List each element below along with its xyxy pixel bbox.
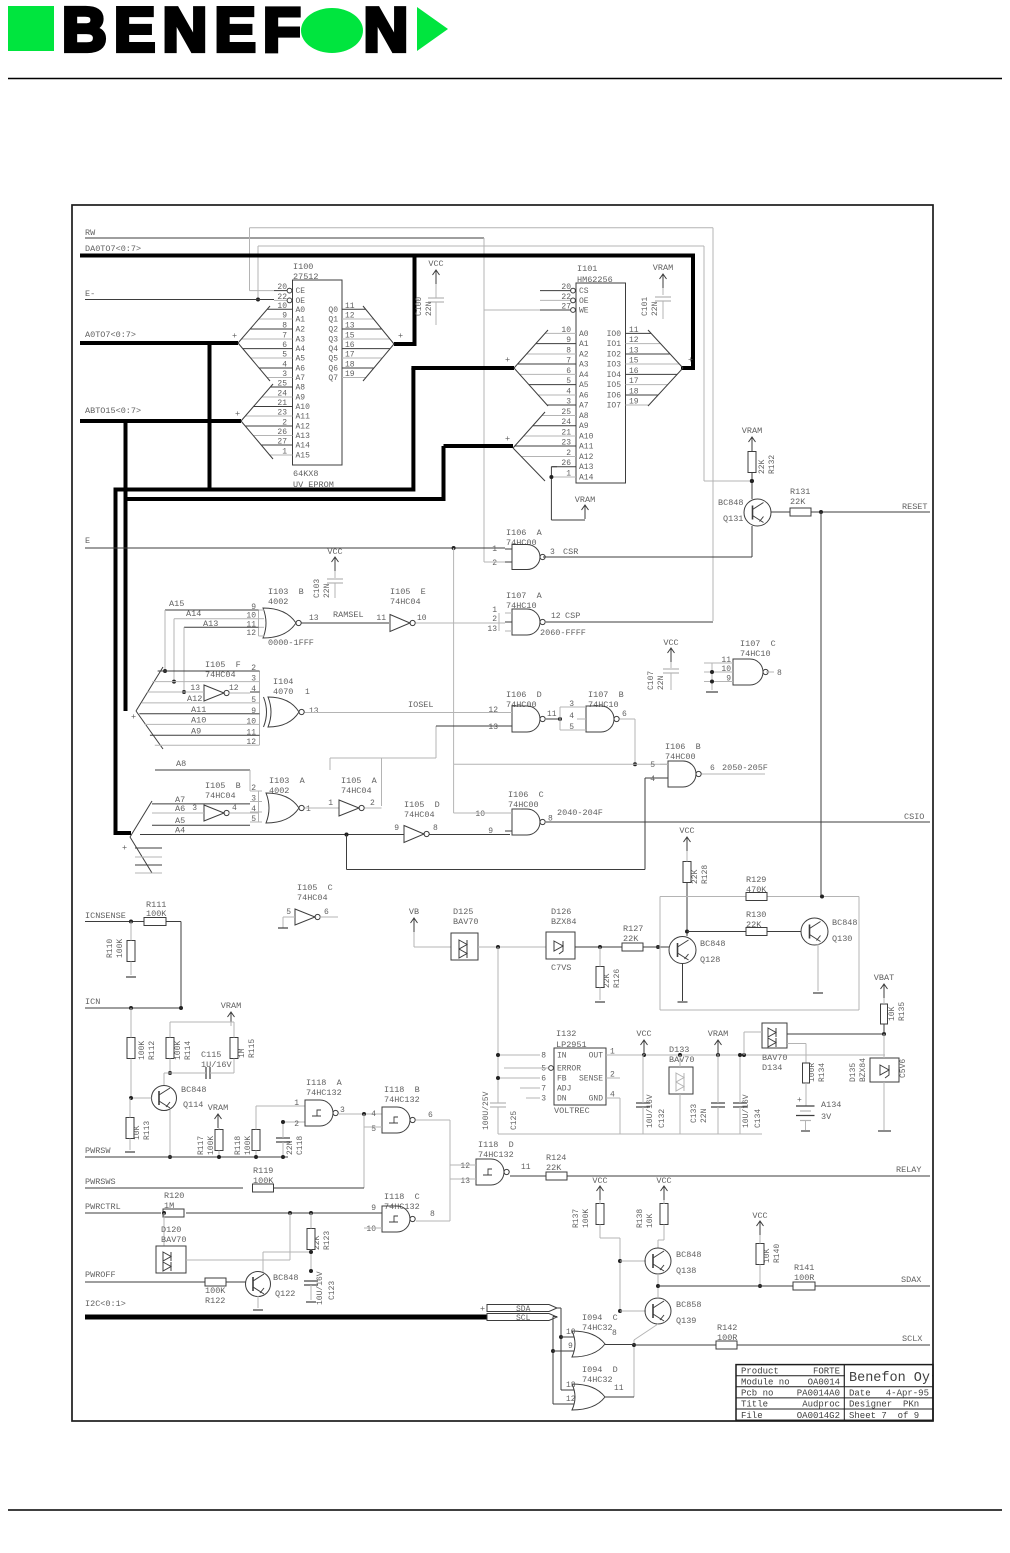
wire PWRSWS [85,1187,243,1189]
svg-text:22: 22 [277,293,287,302]
I101 pin 17 IO5 [626,384,668,386]
svg-text:A15: A15 [296,452,311,461]
svg-text:4: 4 [232,804,237,813]
svg-text:Q114: Q114 [183,1100,203,1110]
svg-text:I101: I101 [577,264,597,274]
I100 pin 16 Q4 [342,348,390,350]
svg-text:Q1: Q1 [328,316,338,325]
svg-text:10: 10 [475,810,485,819]
svg-text:74HC132: 74HC132 [306,1088,342,1098]
net SDAX [658,1285,793,1287]
svg-text:A14: A14 [579,474,594,483]
svg-text:5: 5 [650,761,655,770]
svg-text:17: 17 [629,377,639,386]
svg-text:VCC: VCC [679,826,694,836]
svg-text:R120: R120 [164,1191,184,1201]
svg-text:C7VS: C7VS [551,963,571,973]
resistor R122 100K [205,1278,226,1286]
svg-text:1: 1 [492,545,497,554]
svg-text:A5: A5 [579,381,589,390]
title block lines [736,1375,933,1377]
bus ABTO15 [80,419,241,423]
svg-text:A2: A2 [579,351,589,360]
wire A15 [165,609,259,611]
svg-text:R112: R112 [148,1041,157,1060]
svg-text:16: 16 [629,367,639,376]
transistor Q122 BC848 [246,1272,271,1297]
svg-text:BAV70: BAV70 [453,917,479,927]
svg-text:7: 7 [282,332,287,341]
svg-text:I132: I132 [556,1029,576,1039]
svg-text:I106 D: I106 D [506,690,542,700]
svg-text:BENEF: BENEF [62,0,308,65]
svg-text:13: 13 [487,625,497,634]
bus DA0TO7 vertical [691,254,695,369]
svg-text:I107 A: I107 A [506,591,543,601]
wire I103A input bracket [258,791,260,822]
wire to EPROM CE [249,228,251,291]
svg-text:R113: R113 [143,1121,152,1140]
svg-text:74HC04: 74HC04 [205,791,236,801]
svg-text:1: 1 [294,1099,299,1108]
svg-text:2: 2 [370,799,375,808]
wire funnel row A12 [142,702,250,704]
svg-text:11: 11 [376,614,386,623]
svg-text:VCC: VCC [752,1211,767,1221]
I100 pin 8 A2 [250,328,292,330]
svg-text:19: 19 [629,398,639,407]
svg-text:100K: 100K [205,1286,226,1296]
svg-text:6: 6 [428,1111,433,1120]
wire A14 [174,618,259,620]
transistor Q128 BC848 [669,937,696,964]
svg-text:22: 22 [561,293,571,302]
svg-text:+: + [505,355,510,365]
power VCC at OUT [643,1040,645,1054]
svg-text:SENSE: SENSE [579,1075,603,1084]
svg-text:A134: A134 [821,1100,841,1110]
svg-text:Sheet 7 of 9: Sheet 7 of 9 [849,1411,919,1421]
I100 pin 26 A13 [253,435,292,437]
svg-text:Product: Product [741,1366,779,1376]
svg-text:5: 5 [541,1065,546,1074]
svg-text:24: 24 [561,418,571,427]
net RESET [811,511,930,513]
I100 pin 17 Q5 [342,357,382,359]
svg-text:2: 2 [294,1120,299,1129]
svg-text:A8: A8 [296,384,306,393]
I101 pin 8 A2 [527,353,576,355]
svg-text:1: 1 [328,799,333,808]
svg-text:Q139: Q139 [676,1316,696,1326]
svg-text:Q130: Q130 [832,934,852,944]
svg-text:A12: A12 [296,423,311,432]
svg-text:12: 12 [246,629,256,638]
svg-text:SDA: SDA [516,1305,531,1314]
svg-text:BC848: BC848 [700,939,726,949]
power VRAM below SRAM [584,505,586,519]
svg-text:R119: R119 [253,1166,273,1176]
svg-text:D133: D133 [669,1045,689,1055]
svg-text:VCC: VCC [663,638,678,648]
svg-text:74HC04: 74HC04 [390,597,421,607]
svg-text:A8: A8 [176,759,186,769]
transistor Q130 BC848 [801,918,828,945]
I100 pin 27 A14 [261,444,292,446]
I100 pin 6 A4 [243,348,293,350]
wire I105F output [229,692,250,694]
svg-text:8: 8 [433,824,438,833]
wire Q114 emitter [169,1110,171,1157]
svg-text:OA0014G2: OA0014G2 [797,1411,840,1421]
net RELAY [510,1175,546,1177]
svg-text:A5: A5 [296,355,306,364]
wire I106A pin2 [484,561,505,563]
svg-text:74HC04: 74HC04 [404,810,435,820]
svg-text:4002: 4002 [268,597,288,607]
I100 A8-A15 input funnel [241,384,273,421]
wire I107B bracket [559,707,561,730]
svg-text:PWRSW: PWRSW [85,1146,111,1156]
svg-text:10: 10 [417,614,427,623]
svg-text:A9: A9 [296,394,306,403]
svg-text:RW: RW [85,228,96,238]
svg-text:3: 3 [282,370,287,379]
svg-text:Q0: Q0 [328,306,338,315]
wire to I106B pin5 [454,763,668,765]
svg-text:VCC: VCC [327,547,342,557]
transistor Q131 BC848 [744,499,771,526]
svg-text:R128: R128 [701,865,710,884]
svg-text:VCC: VCC [656,1176,671,1186]
I101 pin 25 A8 [542,415,576,417]
I100 pin 3 A7 [267,377,292,379]
wire vertical to CSP [712,228,714,621]
wire I105C in [283,916,295,918]
wire I107A input bracket [498,613,500,631]
svg-text:D135: D135 [849,1063,858,1082]
svg-text:C103: C103 [313,579,322,598]
wire VRAM rail [230,1022,232,1026]
svg-text:DA0TO7<0:7>: DA0TO7<0:7> [85,244,141,254]
I101 pin 9 A1 [536,343,576,345]
I100 pin 24 A9 [262,396,293,398]
svg-text:C101: C101 [641,297,650,316]
svg-text:A4: A4 [296,345,306,354]
I101 pin 11 IO0 [626,332,652,334]
bus left corner [114,831,132,835]
svg-text:ABTO15<0:7>: ABTO15<0:7> [85,406,141,416]
svg-text:4: 4 [251,805,256,814]
svg-text:A3: A3 [296,336,306,345]
svg-text:R117: R117 [197,1136,206,1155]
svg-text:D120: D120 [161,1225,181,1235]
svg-text:17: 17 [345,351,355,360]
Benefon logo green triangle [417,7,448,51]
svg-text:OA0014: OA0014 [808,1378,840,1388]
svg-text:27: 27 [561,303,571,312]
svg-text:IOSEL: IOSEL [408,700,434,710]
svg-text:BAV70: BAV70 [669,1055,695,1065]
svg-text:13: 13 [566,1381,576,1390]
svg-text:R137: R137 [572,1209,581,1228]
svg-text:BZX84: BZX84 [551,917,577,927]
svg-text:100K: 100K [138,1041,147,1060]
svg-text:IN: IN [557,1052,567,1061]
svg-text:2: 2 [492,559,497,568]
transistor Q114 BC848 [152,1086,177,1111]
wire I107B out [620,718,635,720]
header rule [8,78,1002,80]
bus I2C [85,1315,487,1320]
I100 pin 25 A8 [270,386,292,388]
svg-text:I094 D: I094 D [582,1365,618,1375]
svg-text:74HC132: 74HC132 [384,1095,420,1105]
svg-text:2060-FFFF: 2060-FFFF [540,628,586,638]
svg-text:IO7: IO7 [607,402,622,411]
svg-text:6: 6 [324,908,329,917]
svg-text:VRAM: VRAM [653,263,673,273]
svg-text:SDAX: SDAX [901,1275,921,1285]
svg-text:VCC: VCC [428,259,443,269]
svg-text:16: 16 [345,341,355,350]
svg-text:5: 5 [251,696,256,705]
svg-text:24: 24 [277,390,287,399]
wire I107C out [766,671,774,673]
I101 pin 2 A12 [521,456,576,458]
svg-text:PWRCTRL: PWRCTRL [85,1202,121,1212]
svg-text:10: 10 [721,665,731,674]
svg-text:SCLX: SCLX [902,1334,922,1344]
Benefon logo green square [8,6,54,51]
svg-text:7: 7 [566,357,571,366]
wire R127 to Q128 [643,946,669,948]
svg-text:VRAM: VRAM [575,495,595,505]
svg-text:R110: R110 [106,939,115,958]
svg-text:BAV70: BAV70 [161,1235,187,1245]
svg-text:11: 11 [345,302,355,311]
bus flag SDA [487,1305,557,1312]
svg-text:13: 13 [460,1177,470,1186]
wire I118B out [416,1119,450,1121]
svg-text:I106 B: I106 B [665,742,701,752]
svg-text:R122: R122 [205,1296,225,1306]
svg-text:+: + [480,1304,485,1314]
resistor R128 22K [686,837,688,851]
svg-text:CS: CS [579,287,589,296]
wire A4 branch [346,835,348,870]
svg-text:A7: A7 [579,402,589,411]
svg-text:A9: A9 [191,726,201,736]
svg-text:23: 23 [277,409,287,418]
svg-text:21: 21 [277,399,287,408]
svg-text:3: 3 [569,700,574,709]
svg-text:6: 6 [566,367,571,376]
svg-text:A6: A6 [175,804,185,814]
svg-text:A11: A11 [296,413,311,422]
svg-text:A13: A13 [296,432,311,441]
net A5 [152,824,250,826]
I101 pin 3 A7 [547,404,576,406]
svg-text:A0TO7<0:7>: A0TO7<0:7> [85,330,136,340]
wire feedback loop [660,896,746,898]
svg-text:23: 23 [561,439,571,448]
wire ICNSENSE [85,921,144,923]
wire E branch [453,548,455,764]
svg-text:100K: 100K [174,1041,183,1060]
svg-text:I105 E: I105 E [390,587,426,597]
wire funnel row 1 [152,681,250,683]
svg-text:I104: I104 [273,677,293,687]
svg-text:C132: C132 [658,1109,667,1128]
wire I106D pin13 [436,725,505,727]
svg-text:74HC32: 74HC32 [582,1323,613,1333]
svg-text:I100: I100 [293,262,313,272]
svg-text:12: 12 [460,1162,470,1171]
svg-text:CSR: CSR [563,547,578,557]
svg-text:8: 8 [430,1210,435,1219]
svg-text:Designer PKn: Designer PKn [849,1400,919,1410]
svg-text:74HC10: 74HC10 [740,649,771,659]
transistor Q139 BC858 [645,1298,671,1324]
svg-text:IO1: IO1 [607,340,622,349]
wire R138 to Q138 [663,1225,665,1241]
capacitor C103 22N [334,557,336,571]
wire PWRCTRL [85,1212,161,1214]
svg-text:C133: C133 [690,1104,699,1123]
svg-text:25: 25 [277,380,287,389]
net A6 [152,812,204,814]
wire emitter to R131 [771,511,790,513]
svg-text:9: 9 [251,707,256,716]
I101 pin 18 IO6 [626,394,659,396]
svg-text:Benefon Oy: Benefon Oy [849,1371,930,1386]
svg-text:IO3: IO3 [607,361,622,370]
svg-text:R115: R115 [248,1039,257,1058]
bus ABTO15 vertical [124,421,128,711]
bus to SRAM addr vertical [411,368,415,492]
A8-A12 funnel [136,667,163,711]
I101 pin 24 A9 [533,425,576,427]
power VCC at R137 [599,1186,601,1200]
svg-text:DN: DN [557,1095,567,1104]
svg-text:A10: A10 [191,715,206,725]
svg-text:18: 18 [345,361,355,370]
svg-text:3: 3 [541,1095,546,1104]
svg-text:1: 1 [306,805,311,814]
svg-text:R142: R142 [717,1323,737,1333]
wire I118D inputs [450,1164,476,1166]
svg-text:R126: R126 [613,969,622,988]
svg-text:GND: GND [589,1095,604,1104]
svg-text:R132: R132 [768,455,777,474]
svg-text:22N: 22N [700,1108,709,1123]
svg-text:10: 10 [566,1328,576,1337]
svg-text:ADJ: ADJ [557,1085,571,1094]
svg-text:ERROR: ERROR [557,1065,581,1074]
svg-text:9: 9 [568,1342,573,1351]
capacitor C101 22N [662,274,664,288]
I100 pin 22 OE [274,299,288,301]
svg-text:9: 9 [371,1204,376,1213]
svg-text:13: 13 [309,614,319,623]
wire Q139 emitter [634,1324,658,1340]
svg-text:C107: C107 [647,671,656,690]
svg-text:4-Apr-95: 4-Apr-95 [886,1389,929,1399]
I101 pin 4 A6 [538,394,576,396]
A4-A7 funnel [130,801,152,837]
svg-text:A0: A0 [296,306,306,315]
wire vertical to Q131 collector [703,246,705,481]
I101 pin 21 A10 [524,435,576,437]
svg-text:18: 18 [629,388,639,397]
schematic border frame [72,205,933,1421]
svg-text:R123: R123 [323,1231,332,1250]
svg-text:12: 12 [551,612,561,621]
svg-text:+: + [131,712,136,722]
svg-text:CSIO: CSIO [904,812,924,822]
svg-text:VRAM: VRAM [221,1001,241,1011]
I100 pin 7 A3 [241,338,292,340]
I101 pin 12 IO1 [626,343,661,345]
bus to SRAM addr horizontal [411,366,514,370]
svg-text:3: 3 [566,398,571,407]
wire [226,1281,246,1283]
svg-text:11: 11 [246,620,256,629]
I100 pin 5 A5 [251,357,293,359]
svg-text:I118 C: I118 C [384,1192,420,1202]
wire Q122 emitter [257,1296,259,1308]
svg-text:SCL: SCL [516,1314,531,1323]
svg-text:19: 19 [345,370,355,379]
I100 pin 11 Q0 [342,308,366,310]
I100 pin 2 A12 [245,425,292,427]
IC U I101 HM62256 SRAM body [576,283,626,483]
wire ICN [85,1007,181,1009]
wire [186,1212,382,1214]
svg-text:A9: A9 [579,422,589,431]
capacitor C100 22N [435,270,437,284]
svg-text:A14: A14 [296,442,311,451]
svg-text:I2C<0:1>: I2C<0:1> [85,1299,126,1309]
wire Q128 emitter [682,964,684,1002]
svg-text:100U/25V: 100U/25V [482,1091,491,1130]
svg-text:27512: 27512 [293,272,319,282]
wire I094D out [605,1396,634,1398]
svg-text:7: 7 [541,1085,546,1094]
svg-text:A12: A12 [579,453,594,462]
I100 A0-A7 input funnel [238,306,270,343]
svg-text:5: 5 [569,723,574,732]
svg-text:BC848: BC848 [273,1273,299,1283]
svg-text:22N: 22N [323,583,332,598]
svg-text:8: 8 [282,322,287,331]
svg-text:I106 A: I106 A [506,528,543,538]
svg-text:Q3: Q3 [328,336,338,345]
svg-text:C118: C118 [296,1136,305,1155]
bus left vertical [114,488,118,834]
Benefon logo green O ellipse [301,8,363,53]
wire A13 A14 tie [550,467,552,520]
bus mid horizontal [126,497,444,501]
svg-text:9: 9 [488,827,493,836]
title block erase benefon cell divider [845,1366,932,1386]
I101 pin 22 OE [540,299,571,301]
svg-text:+: + [398,331,403,341]
svg-text:22K: 22K [691,869,700,884]
bus EPROM data vertical [413,256,417,345]
svg-text:74HC04: 74HC04 [297,893,328,903]
